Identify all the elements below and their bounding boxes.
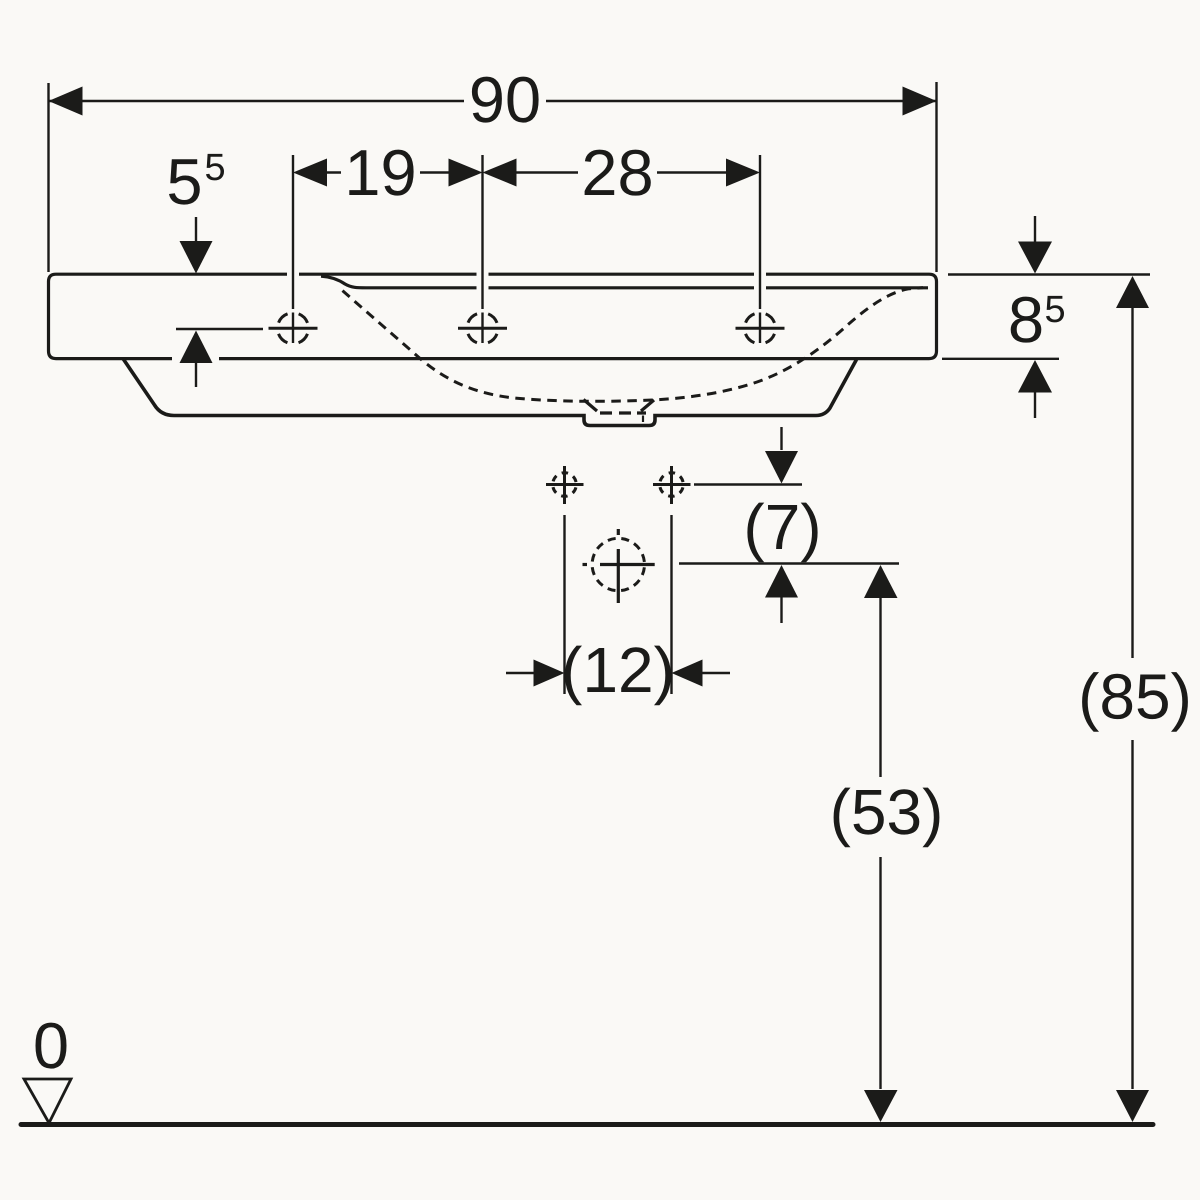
dimension (7): down arrow xyxy=(780,427,782,450)
dimension 8.5: superscript xyxy=(1046,296,1064,323)
tap hole 1 crosshair xyxy=(269,313,318,344)
dimension 28: value label xyxy=(585,150,651,196)
white gaps where extension lines cross slab lines xyxy=(172,270,766,363)
dimension 28: right arrowhead xyxy=(726,159,760,187)
dimension (7): bottom reference line xyxy=(679,562,899,564)
drain tick xyxy=(642,416,644,423)
dimension (53): value label xyxy=(834,788,940,848)
dimension (85): upper line xyxy=(1131,308,1133,658)
dimension 90: left arrowhead xyxy=(49,87,83,116)
dimension 19/28: extension line at second tap hole xyxy=(481,155,483,343)
dimension (53): up arrowhead xyxy=(864,565,898,598)
washbasin inner rim edge xyxy=(321,276,928,288)
datum label 0 xyxy=(36,1023,67,1069)
dimension 19: right arrowhead xyxy=(449,159,483,187)
drain recess dashed right slant xyxy=(641,400,654,411)
dimension (53): upper line xyxy=(879,598,881,777)
dimension 5.5: value label xyxy=(169,159,200,204)
basin bowl dashed contour xyxy=(340,288,923,402)
dimension 19: value label xyxy=(349,150,413,196)
dimension 28: line segments xyxy=(517,171,727,173)
dimension 19/28: extension line at first tap hole xyxy=(292,155,294,343)
dimension 19: left arrowhead xyxy=(293,159,327,187)
dimension 8.5: up arrow xyxy=(1018,360,1052,393)
datum triangle xyxy=(24,1079,71,1123)
dimension (12): value label xyxy=(565,646,671,706)
dimension 5.5: superscript xyxy=(206,154,224,181)
dimension 5.5: down arrow xyxy=(195,217,197,245)
dimension 5.5: up arrow xyxy=(180,331,213,364)
dimension (7): value label xyxy=(747,503,817,563)
dimension (12): right arrow xyxy=(672,660,703,687)
dimension (12): right extension line xyxy=(670,515,672,694)
dimension 19/28: extension line at third tap hole xyxy=(759,155,761,343)
tap hole 2 crosshair xyxy=(458,313,507,344)
fixing hole B crosshair xyxy=(653,466,691,504)
dimension (85): down arrowhead xyxy=(1116,1090,1149,1122)
washbasin lower body with drain lip xyxy=(123,359,857,426)
dimension 90: value label xyxy=(472,77,539,123)
dimension (53): lower line xyxy=(879,857,881,1089)
dimension 5.5: lower reference line xyxy=(176,328,263,330)
tap hole 3 crosshair xyxy=(736,313,785,344)
dimension 19: line segments xyxy=(327,171,449,173)
dimension 90: dimension line xyxy=(49,100,937,102)
dimension (85): lower line xyxy=(1131,740,1133,1089)
floor line xyxy=(21,1122,1153,1127)
dimension 8.5: top reference line xyxy=(948,273,1150,275)
drain recess dashed left slant xyxy=(584,400,598,412)
dimension (7): top reference line xyxy=(694,483,802,485)
dimension (53): down arrowhead xyxy=(864,1090,898,1122)
dimension 28: left arrowhead xyxy=(483,159,517,187)
washbasin top slab outline xyxy=(49,274,937,358)
dimension (85): up arrowhead xyxy=(1116,276,1149,308)
dimension 8.5: bottom reference line xyxy=(942,358,1059,360)
drain recess dashed bottom xyxy=(600,411,646,414)
dimension (7): up arrow xyxy=(765,565,798,598)
dimension (85): value label xyxy=(1082,672,1188,732)
dimension (12): left extension line xyxy=(563,515,565,694)
dimension 90: right extension line xyxy=(935,82,937,272)
dimension (12): left arrow xyxy=(506,672,534,674)
dimension 90: right arrowhead xyxy=(903,87,937,116)
dimension 90: left extension line xyxy=(47,83,49,272)
waste hole crosshair xyxy=(583,529,655,603)
dimension 8.5: down arrow xyxy=(1034,216,1036,244)
fixing hole A crosshair xyxy=(546,466,584,504)
dimension 8.5: value label xyxy=(1011,297,1042,343)
